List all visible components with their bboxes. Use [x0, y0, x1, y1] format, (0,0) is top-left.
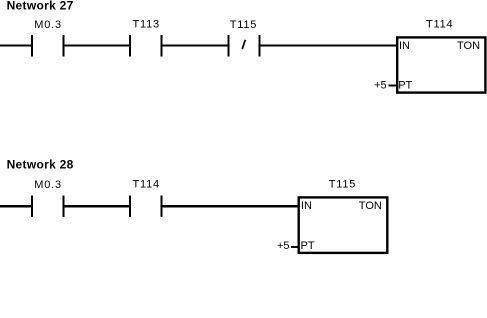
- svg-text:+5: +5: [277, 240, 290, 252]
- wire: [260, 45, 398, 47]
- svg-text:TON: TON: [457, 40, 480, 52]
- svg-text:T114: T114: [132, 178, 159, 190]
- contact T115 (normally closed): [228, 19, 261, 57]
- svg-text:T115: T115: [329, 179, 356, 191]
- svg-text:M0.3: M0.3: [34, 19, 62, 31]
- wire: [64, 205, 130, 207]
- svg-text:T113: T113: [132, 19, 159, 31]
- wire: [0, 205, 32, 207]
- wire: [162, 45, 229, 47]
- contact T113: [129, 19, 163, 57]
- timer T115 TON box: [299, 179, 388, 253]
- svg-text:M0.3: M0.3: [34, 179, 62, 191]
- timer T114 TON box: [397, 19, 485, 93]
- svg-text:T114: T114: [426, 19, 453, 31]
- svg-text:Network 27: Network 27: [7, 0, 74, 13]
- wire: [0, 45, 32, 47]
- svg-text:PT: PT: [301, 240, 315, 252]
- svg-text:Network 28: Network 28: [7, 158, 74, 172]
- wire: [64, 45, 130, 47]
- wire PT pin tick: [389, 85, 398, 87]
- svg-text:IN: IN: [399, 40, 410, 52]
- svg-text:TON: TON: [359, 200, 382, 212]
- svg-text:PT: PT: [398, 80, 412, 92]
- svg-text:T115: T115: [230, 19, 257, 31]
- contact M0.3: [31, 19, 64, 57]
- svg-text:+5: +5: [374, 80, 387, 92]
- wire: [162, 205, 300, 207]
- contact M0.3 (network 28): [31, 179, 64, 217]
- svg-text:IN: IN: [301, 200, 312, 212]
- contact T114: [129, 178, 163, 216]
- wire PT pin tick: [291, 246, 299, 248]
